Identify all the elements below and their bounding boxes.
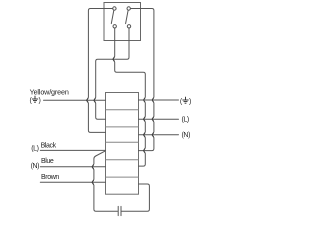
svg-text:Black: Black [41,143,57,150]
svg-text:Blue: Blue [41,158,54,165]
svg-text:(L): (L) [182,117,189,124]
svg-text:(L): (L) [31,146,38,153]
svg-text:Yellow/green: Yellow/green [30,87,69,96]
svg-text:Brown: Brown [41,174,59,181]
svg-text:(N): (N) [182,132,191,139]
svg-text:(N): (N) [31,163,40,170]
svg-text:): ) [189,98,191,105]
svg-text:): ) [39,97,41,104]
